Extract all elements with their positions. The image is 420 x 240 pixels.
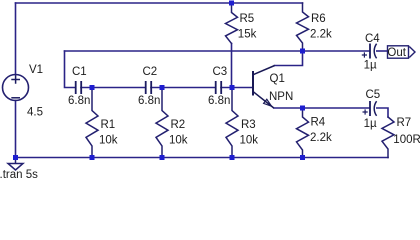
svg-text:1µ: 1µ — [364, 60, 377, 72]
svg-text:10k: 10k — [240, 135, 259, 147]
svg-text:R7: R7 — [397, 117, 412, 129]
voltage source V1 — [3, 75, 29, 101]
node emitter/R4 — [300, 106, 305, 111]
svg-text:R4: R4 — [311, 117, 326, 129]
transistor Q1 — [253, 66, 275, 109]
node R1 bottom — [90, 155, 95, 160]
svg-text:6.8n: 6.8n — [138, 95, 160, 107]
wire bottom rail — [16, 157, 389, 159]
wire left rail lower — [15, 101, 17, 158]
plus mark C4 — [362, 52, 367, 57]
wire collector riser — [275, 51, 303, 66]
capacitor C2 plates — [146, 81, 152, 94]
svg-text:10k: 10k — [99, 135, 118, 147]
V1 minus mark — [11, 97, 20, 99]
wire feedback run — [65, 50, 303, 52]
svg-text:6.8n: 6.8n — [68, 95, 90, 107]
svg-text:R2: R2 — [171, 119, 186, 131]
capacitor C5 plates — [369, 101, 371, 116]
wire C1 to C2 — [81, 87, 146, 89]
ground — [8, 158, 23, 171]
svg-text:R1: R1 — [101, 119, 116, 131]
resistor R7 — [382, 117, 394, 158]
resistor R5 — [226, 3, 238, 44]
svg-text:15k: 15k — [238, 29, 257, 41]
plus mark C5 — [363, 109, 368, 114]
wire C3 to base — [221, 87, 253, 89]
wire R5 lower lead to node — [231, 44, 233, 88]
wire left rail upper — [15, 3, 17, 75]
resistor R1 — [86, 88, 98, 158]
capacitor C1 plates — [76, 81, 82, 94]
node R4 bottom — [300, 155, 305, 160]
wire C5 to R7 — [377, 108, 388, 117]
svg-text:Q1: Q1 — [270, 73, 285, 85]
wire left drop to C1 — [65, 51, 76, 88]
svg-text:R6: R6 — [311, 13, 326, 25]
wire node to C4 — [303, 50, 370, 52]
svg-text:C4: C4 — [365, 33, 380, 45]
wire C2 to C3 — [151, 87, 216, 89]
svg-text:C2: C2 — [143, 66, 158, 78]
svg-text:V1: V1 — [29, 64, 43, 76]
resistor R6 — [297, 3, 309, 51]
svg-text:C3: C3 — [213, 66, 228, 78]
svg-text:.tran 5s: .tran 5s — [0, 169, 38, 178]
svg-text:2.2k: 2.2k — [310, 29, 332, 41]
wire C4 to out flag — [377, 50, 388, 52]
wire top rail — [16, 2, 303, 4]
wire emitter run — [274, 107, 370, 109]
node C2/R2 — [160, 85, 165, 90]
resistor R2 — [156, 88, 168, 158]
svg-text:10k: 10k — [169, 135, 188, 147]
node C3/R3/base — [230, 85, 235, 90]
svg-text:1µ: 1µ — [364, 118, 377, 130]
V1 plus mark — [11, 75, 20, 83]
svg-text:Out: Out — [387, 47, 406, 59]
svg-text:4.5: 4.5 — [27, 107, 43, 119]
node ground — [13, 155, 18, 160]
resistor R4 — [297, 108, 309, 158]
svg-text:C1: C1 — [72, 66, 87, 78]
node R3 bottom — [230, 155, 235, 160]
resistor R3 — [226, 88, 238, 158]
svg-text:6.8n: 6.8n — [208, 95, 230, 107]
svg-text:NPN: NPN — [269, 91, 293, 103]
svg-text:2.2k: 2.2k — [310, 132, 332, 144]
node R2 bottom — [160, 155, 165, 160]
svg-text:R3: R3 — [241, 119, 256, 131]
out port flag — [388, 46, 416, 58]
svg-text:R5: R5 — [240, 13, 255, 25]
capacitor C3 plates — [216, 81, 222, 94]
node collector/R6 — [300, 49, 305, 54]
node C1/R1 — [90, 85, 95, 90]
capacitor C4 plates — [369, 44, 371, 59]
node R5 top — [229, 1, 234, 6]
svg-text:100R: 100R — [393, 134, 420, 146]
svg-text:C5: C5 — [366, 89, 381, 101]
